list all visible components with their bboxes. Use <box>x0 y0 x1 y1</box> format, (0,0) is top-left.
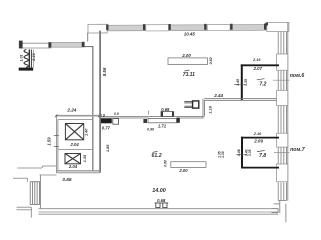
svg-text:0.60: 0.60 <box>209 57 213 64</box>
door 2 dark mark <box>143 119 147 123</box>
room 6 left wall <box>241 64 243 100</box>
svg-text:0.77: 0.77 <box>102 125 111 130</box>
upper lobby line 2 <box>43 165 57 167</box>
wall B black segment <box>101 119 112 124</box>
right wall window hatch 4 (room 7 window) <box>278 147 286 164</box>
svg-text:3.45: 3.45 <box>236 78 240 86</box>
room 6 dim tick <box>234 83 245 85</box>
wall A horizontal (bottom of room 6) <box>204 99 276 101</box>
svg-text:1.35: 1.35 <box>83 154 87 162</box>
right wall window hatch 1 <box>278 32 286 54</box>
svg-text:1.01: 1.01 <box>20 55 24 62</box>
elevator block bottom edge <box>56 170 99 172</box>
vent shaft box <box>193 101 199 108</box>
divider between shafts <box>58 149 93 151</box>
svg-text:8.56: 8.56 <box>102 67 107 76</box>
svg-text:3.46: 3.46 <box>237 148 241 156</box>
room 7 top wall <box>241 137 279 139</box>
elevator block left edge <box>56 115 58 173</box>
stairs hatch <box>30 182 39 205</box>
right wall window hatch 5 <box>278 183 286 201</box>
room 7 leader line <box>274 151 290 153</box>
svg-text:0.60: 0.60 <box>163 160 167 167</box>
upper lobby line <box>17 167 42 169</box>
stair shaft right wall <box>39 175 41 209</box>
wall tick <box>143 24 145 30</box>
svg-text:2.09: 2.09 <box>253 138 263 143</box>
svg-text:пом.7: пом.7 <box>290 147 306 153</box>
svg-text:1.40: 1.40 <box>84 128 88 136</box>
right exterior wall outer edge <box>287 22 289 200</box>
right wall bottom step <box>272 200 287 222</box>
room 6 leader line <box>273 79 290 81</box>
window top 1 <box>146 25 169 31</box>
svg-text:2.04: 2.04 <box>70 142 80 147</box>
svg-text:0.68: 0.68 <box>161 107 170 112</box>
svg-text:0.90: 0.90 <box>147 127 154 131</box>
bottom door symbol <box>155 203 169 208</box>
svg-text:1.18: 1.18 <box>208 105 212 113</box>
wall tick <box>264 24 266 30</box>
right wall pier 2 <box>277 90 288 105</box>
insulated wall zigzag <box>24 50 28 68</box>
room 7 left wall <box>241 137 243 169</box>
opening rect (sliding door) <box>148 118 177 122</box>
terrace step line <box>85 46 94 48</box>
wall tick <box>230 24 232 30</box>
svg-text:61.2: 61.2 <box>152 153 162 159</box>
wall tick <box>204 24 206 30</box>
kitchen unit rect top (2.00) <box>168 58 207 65</box>
svg-text:1.85: 1.85 <box>106 144 110 152</box>
bottom wall lines <box>39 209 279 215</box>
room 7 area overline <box>257 151 265 152</box>
svg-text:2.16: 2.16 <box>252 58 261 62</box>
lobby connector <box>27 178 29 182</box>
svg-text:2.07: 2.07 <box>253 66 263 71</box>
corner tick <box>265 23 268 26</box>
shaft box above wall B <box>161 112 174 117</box>
svg-text:10.45: 10.45 <box>184 31 196 36</box>
svg-text:2.16: 2.16 <box>253 132 262 136</box>
portal opening left <box>88 24 107 33</box>
svg-text:3.55: 3.55 <box>62 177 72 183</box>
elevator block top edge <box>56 115 100 117</box>
svg-text:3.35: 3.35 <box>244 78 248 86</box>
opening dark cap <box>177 118 180 123</box>
terrace band tick mid <box>48 42 51 47</box>
svg-text:2.21: 2.21 <box>31 52 36 62</box>
shaft box cap left <box>161 111 163 116</box>
terrace band gray segment <box>51 42 82 47</box>
wall B horizontal (corridor wall) <box>101 117 204 118</box>
area tick lower <box>153 151 158 152</box>
radiator hatch <box>184 102 192 108</box>
wall B tick <box>99 115 101 119</box>
dim ticks on block left edge <box>54 114 101 146</box>
elevator block inner top line <box>58 119 93 121</box>
svg-text:7.2: 7.2 <box>259 81 266 87</box>
svg-text:0.68: 0.68 <box>157 198 166 203</box>
terrace band cap right <box>82 42 85 47</box>
insulated wall lines <box>29 50 33 68</box>
room 7 bottom wall <box>241 167 279 169</box>
right wall window hatch 3 <box>278 106 286 133</box>
upper lobby connector <box>41 166 43 168</box>
svg-text:1.30: 1.30 <box>221 151 225 158</box>
left terrace band white window <box>20 43 51 48</box>
room 6 top wall <box>241 64 279 66</box>
portal left wall <box>87 33 89 42</box>
svg-text:2.04: 2.04 <box>68 164 78 169</box>
area tick <box>185 70 190 71</box>
door leaf 1 <box>113 119 119 125</box>
svg-text:1.71: 1.71 <box>158 123 167 128</box>
svg-text:2.44: 2.44 <box>213 93 223 98</box>
right wall window hatch 2 (room 6 window) <box>278 71 286 91</box>
lobby line 1 <box>40 174 57 176</box>
insulated wall bottom leg <box>19 68 34 71</box>
top-right corner block <box>267 22 289 31</box>
room 6 area overline <box>257 79 265 80</box>
interior wall J vertical <box>92 47 94 171</box>
elevator shaft 2 <box>65 154 81 164</box>
svg-text:пом.6: пом.6 <box>290 73 305 79</box>
svg-text:2.00: 2.00 <box>178 168 188 173</box>
wall tick <box>106 25 108 31</box>
lobby line 2 <box>13 177 28 179</box>
svg-text:2.24: 2.24 <box>66 107 76 112</box>
right wall pier 1 <box>277 54 288 70</box>
svg-text:3.35: 3.35 <box>248 149 252 156</box>
kitchen unit rect bottom (2.00) <box>171 162 206 168</box>
terrace band cap left <box>19 41 23 49</box>
svg-text:14.00: 14.00 <box>152 188 166 194</box>
bottom-left wall stub <box>17 207 32 217</box>
svg-text:0.9: 0.9 <box>114 112 119 116</box>
wall jog vertical <box>203 99 205 118</box>
room 7 dim tick <box>237 154 248 156</box>
svg-text:1.59: 1.59 <box>47 137 52 146</box>
top exterior wall band <box>88 24 267 33</box>
wall tick <box>168 24 170 30</box>
door 2 tick above wall <box>147 111 149 115</box>
right wall pier 3 <box>277 133 288 147</box>
shaft box cap right <box>172 111 174 116</box>
svg-text:2.00: 2.00 <box>181 53 191 58</box>
window top 2 <box>207 24 230 30</box>
right wall pier 4 <box>277 164 288 182</box>
svg-text:7.8: 7.8 <box>259 153 266 159</box>
svg-text:73.11: 73.11 <box>183 72 195 78</box>
elevator shaft 1 <box>65 124 83 140</box>
